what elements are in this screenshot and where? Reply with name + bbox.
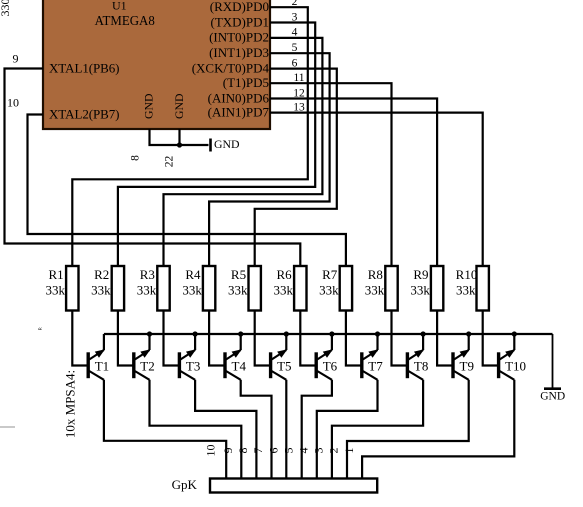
svg-text:8: 8 — [236, 448, 250, 454]
svg-text:XTAL1(PB6): XTAL1(PB6) — [49, 61, 120, 76]
junction dot pin22/pin8 — [177, 142, 182, 147]
wire XTAL2 pin10 to R7 top — [28, 115, 346, 267]
svg-text:33k: 33k — [456, 283, 476, 298]
svg-text:U1: U1 — [112, 0, 127, 12]
svg-text:7: 7 — [251, 448, 265, 454]
junction dot T2 emitter on bus — [147, 331, 152, 336]
svg-text:T5: T5 — [277, 358, 291, 373]
svg-text:T4: T4 — [232, 358, 247, 373]
emitter bus wire to GND — [104, 333, 553, 335]
wire PD3 pin5 to R4 top — [209, 53, 330, 266]
transistor T5 MPSA4 — [271, 334, 292, 380]
transistor T3 MPSA4 — [179, 334, 200, 380]
svg-text:T3: T3 — [186, 358, 200, 373]
svg-text:GND: GND — [172, 93, 186, 119]
svg-text:33k: 33k — [46, 283, 66, 298]
svg-text:(TXD)PD1: (TXD)PD1 — [211, 14, 270, 29]
svg-text:T1: T1 — [95, 358, 109, 373]
svg-text:R10: R10 — [456, 267, 478, 282]
junction dot T5 emitter on bus — [284, 331, 289, 336]
transistor T2 MPSA4 — [134, 334, 155, 380]
wire T5 collector to connector pin 6 — [285, 380, 287, 479]
svg-text:9: 9 — [13, 52, 19, 66]
connector GpK — [172, 477, 378, 493]
resistor R1 33k — [46, 266, 79, 311]
svg-text:T6: T6 — [323, 358, 338, 373]
svg-text:33k: 33k — [91, 283, 111, 298]
junction dot T8 emitter on bus — [421, 331, 426, 336]
svg-text:(INT0)PD2: (INT0)PD2 — [209, 30, 269, 45]
svg-text:T7: T7 — [368, 358, 383, 373]
transistor T8 MPSA4 — [407, 334, 428, 380]
svg-text:GpK: GpK — [172, 477, 198, 492]
svg-text:R1: R1 — [49, 267, 64, 282]
svg-text:4: 4 — [297, 448, 311, 454]
transistor T6 MPSA4 — [316, 334, 337, 380]
wire R10 bottom to T10 base — [483, 311, 499, 366]
transistor T7 MPSA4 — [362, 334, 383, 380]
svg-text:3: 3 — [312, 448, 326, 454]
svg-text:33k: 33k — [410, 283, 430, 298]
wire T6 collector to connector pin 5 — [302, 380, 332, 479]
svg-text:(AIN1)PD7: (AIN1)PD7 — [208, 104, 270, 119]
svg-text:R6: R6 — [277, 267, 293, 282]
wire T4 collector to connector pin 7 — [241, 380, 272, 479]
wire PD0 pin2 to R1 top — [72, 7, 307, 266]
junction dot T4 emitter on bus — [238, 331, 243, 336]
svg-text:33k: 33k — [182, 283, 202, 298]
svg-text:33k: 33k — [137, 283, 157, 298]
svg-text:10x MPSA4:: 10x MPSA4: — [63, 370, 78, 438]
resistor R8 33k — [365, 266, 398, 311]
svg-text:22: 22 — [164, 156, 176, 168]
svg-text:2: 2 — [327, 448, 341, 454]
svg-text:33k: 33k — [228, 283, 248, 298]
wire PD5 pin11 to R8 top — [270, 83, 392, 266]
wire R5 bottom to T5 base — [255, 311, 271, 366]
svg-text:T2: T2 — [140, 358, 154, 373]
svg-text:GND: GND — [540, 391, 565, 403]
resistor R10 33k — [456, 266, 489, 311]
junction dot T7 emitter on bus — [375, 331, 380, 336]
wire T7 collector to connector pin 4 — [317, 380, 378, 479]
svg-text:10: 10 — [7, 96, 19, 110]
resistor R6 33k — [274, 266, 307, 311]
wire XTAL1 pin9 to R6 top — [5, 69, 301, 267]
transistor T9 MPSA4 — [453, 334, 474, 380]
svg-text:GND: GND — [214, 137, 240, 151]
wire PD2 pin4 to R3 top — [164, 38, 323, 266]
svg-text:5: 5 — [281, 448, 295, 454]
svg-text:9: 9 — [221, 448, 235, 454]
svg-text:10: 10 — [204, 445, 218, 457]
svg-text:GND: GND — [142, 93, 156, 119]
svg-text:33k: 33k — [319, 283, 339, 298]
transistor T4 MPSA4 — [225, 334, 246, 380]
wire PD1 pin3 to R2 top — [118, 23, 315, 267]
IC U1 ATMEGA8 — [43, 0, 270, 129]
wire PD6 pin12 to R9 top — [270, 99, 437, 267]
wire pin22 GND — [178, 129, 180, 145]
wire T9 collector to connector pin 2 — [347, 380, 469, 479]
wire R7 bottom to T7 base — [346, 311, 362, 366]
resistor R4 33k — [182, 266, 215, 311]
svg-text:R4: R4 — [185, 267, 201, 282]
resistor R5 33k — [228, 266, 261, 311]
svg-text:T9: T9 — [460, 358, 474, 373]
wire pin8 GND — [150, 129, 209, 145]
ground symbol right — [540, 334, 565, 403]
resistor R7 33k — [319, 266, 352, 311]
ground symbol under IC — [211, 137, 241, 152]
wire R1 bottom to T1 base — [72, 311, 88, 366]
svg-text:1: 1 — [342, 448, 356, 454]
wire PD7 pin13 to R10 top — [270, 113, 483, 266]
wire R8 bottom to T8 base — [392, 311, 408, 366]
svg-text:XTAL2(PB7): XTAL2(PB7) — [49, 107, 120, 122]
svg-text:(XCK/T0)PD4: (XCK/T0)PD4 — [192, 60, 270, 75]
svg-text:R5: R5 — [231, 267, 246, 282]
svg-text:8: 8 — [130, 155, 142, 161]
svg-text:(AIN0)PD6: (AIN0)PD6 — [208, 90, 270, 105]
transistor T1 MPSA4 — [88, 334, 109, 380]
wire T8 collector to connector pin 3 — [332, 380, 423, 479]
junction dot T6 emitter on bus — [329, 331, 334, 336]
junction dot T3 emitter on bus — [193, 331, 198, 336]
svg-text:R9: R9 — [413, 267, 428, 282]
wire R6 bottom to T6 base — [300, 311, 316, 366]
wire T2 collector to connector pin 9 — [150, 380, 242, 479]
transistor T10 MPSA4 — [499, 334, 526, 380]
wire PD4 pin6 to R5 top — [255, 69, 337, 266]
wire T10 collector to connector pin 1 — [362, 380, 514, 479]
svg-text:T8: T8 — [414, 358, 428, 373]
resistor R2 33k — [91, 266, 124, 311]
wire R4 bottom to T4 base — [209, 311, 225, 366]
svg-text:33k: 33k — [365, 283, 385, 298]
svg-text:T10: T10 — [505, 358, 526, 373]
svg-text:“: “ — [38, 326, 42, 336]
svg-text:R8: R8 — [368, 267, 383, 282]
svg-text:(INT1)PD3: (INT1)PD3 — [209, 45, 269, 60]
wire T1 collector to connector pin 10 — [104, 380, 226, 479]
wire T3 collector to connector pin 8 — [195, 380, 256, 479]
junction dot T10 emitter on bus — [512, 331, 517, 336]
svg-text:(RXD)PD0: (RXD)PD0 — [210, 0, 269, 14]
wire R2 bottom to T2 base — [118, 311, 134, 366]
resistor R3 33k — [137, 266, 170, 311]
svg-text:(T1)PD5: (T1)PD5 — [223, 75, 269, 90]
svg-text:6: 6 — [266, 448, 280, 454]
wire R3 bottom to T3 base — [164, 311, 180, 366]
faint artifact streak left edge — [0, 426, 15, 428]
wire R9 bottom to T9 base — [437, 311, 453, 366]
svg-text:ATMEGA8: ATMEGA8 — [95, 14, 155, 29]
svg-text:R2: R2 — [94, 267, 109, 282]
junction dot T9 emitter on bus — [466, 331, 471, 336]
svg-text:330: 330 — [0, 0, 12, 17]
svg-text:R3: R3 — [140, 267, 155, 282]
resistor R9 33k — [410, 266, 443, 311]
svg-text:R7: R7 — [322, 267, 338, 282]
svg-text:33k: 33k — [274, 283, 294, 298]
